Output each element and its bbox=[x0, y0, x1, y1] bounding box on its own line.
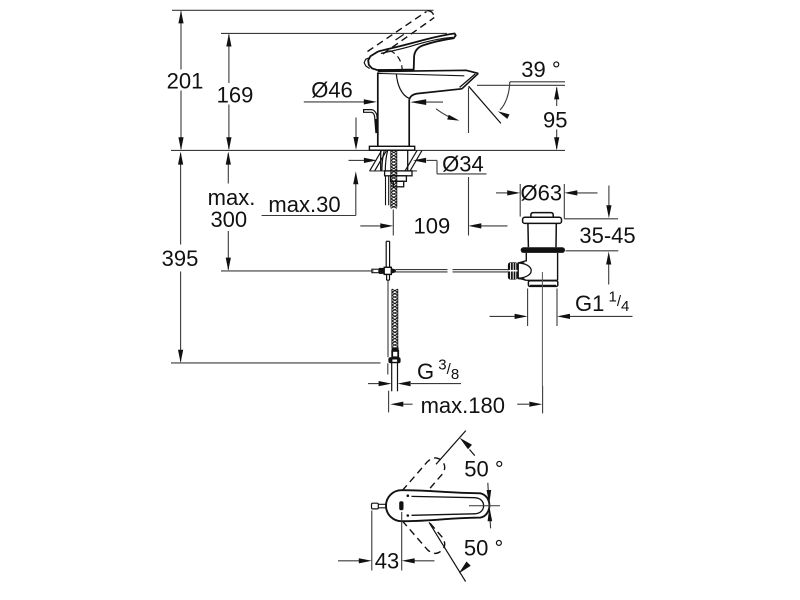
hose nut (dark) bbox=[388, 357, 400, 363]
dim 201 vertical line bbox=[180, 12, 182, 70]
dim 395 vertical line bbox=[180, 154, 182, 245]
knurled knob (dark) bbox=[508, 262, 518, 279]
drain centerline bbox=[541, 272, 543, 386]
drain lift cap bbox=[531, 213, 553, 218]
dim max.30 lower arrow bbox=[353, 171, 358, 184]
tee bottom stub bbox=[386, 274, 388, 280]
35-45 bottom extension line bbox=[566, 250, 619, 252]
spout tip extension line lower bbox=[468, 177, 470, 236]
svg-text:max.180: max.180 bbox=[421, 393, 505, 418]
35-45 bottom arrow bbox=[606, 252, 611, 265]
raised lever tip dash bbox=[427, 11, 434, 17]
50deg upper arrow bbox=[460, 438, 472, 450]
svg-text:43: 43 bbox=[375, 548, 399, 573]
hub left lobe bbox=[364, 58, 370, 69]
35-45 top extension line bbox=[564, 218, 618, 220]
hatch left 2 bbox=[375, 151, 387, 171]
tee right cone (dark) bbox=[391, 268, 396, 273]
top view: centerline bbox=[469, 505, 500, 507]
G1 1/4 arrows bbox=[490, 315, 516, 317]
dim 169 vertical line bbox=[228, 35, 230, 84]
bottom reference line y=363 bbox=[171, 362, 381, 364]
mounting flange below counter bbox=[385, 171, 412, 176]
knob stem top/bottom lines bbox=[518, 262, 525, 264]
spout tip extension line upper bbox=[468, 88, 470, 134]
faucet body outline bbox=[377, 73, 379, 147]
svg-text:39 °: 39 ° bbox=[521, 57, 560, 82]
cartridge dome dashed arc bbox=[390, 51, 403, 70]
svg-text:Ø34: Ø34 bbox=[442, 152, 484, 177]
hatch right 2 bbox=[410, 151, 422, 171]
pop-up rod thin line bbox=[387, 280, 389, 357]
threaded shank with braid pattern bbox=[391, 151, 397, 209]
max.30 underline bbox=[262, 215, 356, 217]
svg-text:300: 300 bbox=[210, 207, 247, 232]
hose curve in hole 1 bbox=[382, 151, 384, 171]
dim 43 right arrow bbox=[415, 560, 435, 562]
top view: pull rod stem bbox=[378, 503, 386, 505]
svg-text:max.30: max.30 bbox=[268, 192, 340, 217]
faucet base plate bbox=[369, 146, 414, 150]
max.180 dim line bbox=[390, 402, 403, 407]
top view: handle outer outline bbox=[386, 490, 489, 521]
svg-text:35-45: 35-45 bbox=[579, 223, 635, 248]
hose end ferrule (dark) bbox=[392, 347, 399, 351]
dim 43 left arrow bbox=[338, 560, 359, 562]
hatch left 1 bbox=[370, 151, 382, 171]
counter bottom line bbox=[369, 170, 417, 172]
G1 1/4 extensions bbox=[527, 289, 529, 327]
faucet spout inner top line bbox=[378, 73, 465, 75]
tee center block bbox=[384, 267, 391, 274]
dim max.30 upper arrow bbox=[355, 118, 357, 138]
50deg upper axis line bbox=[436, 431, 466, 465]
counter top line bbox=[171, 149, 565, 151]
tee left block (dark) bbox=[379, 268, 384, 274]
tee left cap bbox=[372, 269, 379, 273]
dim 109 left arrow bbox=[360, 225, 381, 227]
hose collar bbox=[392, 351, 398, 357]
dim Ø34 right arrow bbox=[413, 158, 426, 163]
dim 109 left extension bbox=[392, 210, 394, 236]
drain bottom ring bbox=[528, 281, 557, 287]
top view: dashed handle rotated up bbox=[395, 458, 445, 512]
drain body lower left bbox=[518, 253, 526, 280]
hole edge right bbox=[407, 150, 409, 171]
Ø34 underline bbox=[437, 173, 487, 175]
body top line under lever bbox=[378, 69, 414, 71]
pop-up rod below nut bbox=[387, 363, 389, 374]
dim G3/8 left arrow bbox=[368, 383, 379, 385]
pull rod dark wedge bbox=[375, 119, 378, 133]
dim Ø34 left arrow bbox=[349, 159, 365, 161]
hatch right 1 bbox=[405, 151, 417, 171]
svg-text:Ø63: Ø63 bbox=[521, 181, 563, 206]
horizontal rod left segment bbox=[221, 270, 374, 272]
top view: pull rod cap bbox=[372, 503, 379, 509]
top view: dots bbox=[407, 494, 410, 497]
hole edge left bbox=[380, 150, 382, 171]
top view: dark slot bbox=[399, 501, 403, 510]
angular dim vertical line right bbox=[488, 483, 491, 529]
svg-text:95: 95 bbox=[543, 108, 567, 133]
dim 109 right arrow bbox=[481, 225, 508, 227]
pull rod below counter (pair) bbox=[385, 176, 387, 205]
faucet spout top edge bbox=[378, 70, 479, 73]
svg-text:G 3/8: G 3/8 bbox=[417, 356, 459, 384]
reference line 169 level bbox=[221, 32, 447, 34]
39deg reference diagonal bbox=[469, 86, 501, 123]
dim Ø46 leader line bbox=[304, 101, 365, 103]
lever inner line bbox=[381, 37, 453, 53]
raised lever dashed edge 2 bbox=[383, 18, 434, 54]
50deg lower axis line bbox=[429, 522, 466, 581]
drain O-ring (dark band) bbox=[521, 247, 565, 253]
drain body bottom edge bbox=[526, 279, 557, 281]
mounting bracket step 1 bbox=[391, 176, 407, 182]
35-45 top arrow bbox=[608, 186, 610, 207]
95 top reference line from spout tip bbox=[477, 84, 565, 86]
svg-text:Ø46: Ø46 bbox=[311, 78, 353, 103]
dim 95 vertical line bbox=[556, 88, 558, 107]
aerator face (double diagonal) bbox=[462, 73, 478, 88]
dim Ø63 extensions bbox=[519, 184, 521, 217]
dim 43 extensions bbox=[371, 511, 373, 571]
top reference line (max open handle height) bbox=[172, 9, 434, 11]
braided hose pattern bbox=[392, 289, 398, 348]
50deg lower arrow bbox=[459, 562, 471, 574]
svg-text:201: 201 bbox=[167, 69, 204, 94]
lever handle silhouette bbox=[368, 34, 456, 71]
svg-text:169: 169 bbox=[217, 82, 254, 107]
rod guide tube bbox=[385, 241, 387, 267]
raised lever dashed edge 1 bbox=[368, 11, 427, 51]
svg-text:G1 1/4: G1 1/4 bbox=[575, 289, 629, 317]
pull rod knob bbox=[364, 110, 378, 133]
angular dim arrows converging bbox=[487, 490, 492, 505]
Ø34 leader elbow bbox=[436, 160, 438, 174]
horizontal tube segment2 to drain bbox=[453, 269, 508, 271]
neck arc (body to spout transition) bbox=[396, 74, 409, 99]
dim Ø46 right arrow bbox=[426, 101, 443, 103]
svg-text:395: 395 bbox=[162, 246, 199, 271]
drain body lower right bbox=[557, 253, 559, 280]
39deg underline bbox=[510, 81, 565, 83]
supply tube below nut bbox=[391, 363, 393, 392]
raised lever middle dash bbox=[396, 32, 408, 40]
top view: dashed handle rotated down bbox=[395, 499, 445, 553]
mounting bracket step 2 bbox=[393, 181, 403, 187]
max.180 right extension / centerline lower bbox=[542, 386, 544, 413]
dim Ø63 arrows bbox=[496, 192, 508, 194]
horizontal tube right of tee (pair) segment1 bbox=[396, 269, 448, 271]
spout underside bbox=[409, 89, 462, 100]
svg-text:50 °: 50 ° bbox=[464, 535, 503, 560]
drain side port ball bbox=[518, 263, 531, 278]
svg-text:50 °: 50 ° bbox=[464, 457, 503, 482]
dim max.300 vertical line bbox=[227, 154, 229, 184]
svg-text:109: 109 bbox=[414, 214, 451, 239]
drain flange bbox=[523, 217, 562, 223]
dim G3/8 right arrow bbox=[411, 383, 461, 385]
top view: lever inner outline bbox=[412, 496, 484, 515]
39deg leader arc bbox=[500, 82, 510, 110]
drain body upper bbox=[527, 223, 530, 247]
hose curve in hole 2 bbox=[385, 151, 387, 171]
max.180 left extension bbox=[388, 391, 390, 413]
flow angle arc with arrow bbox=[436, 109, 457, 120]
